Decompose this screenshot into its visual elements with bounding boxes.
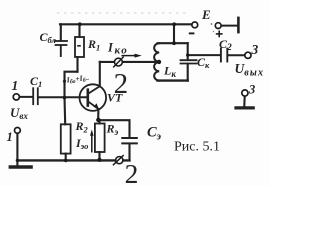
- arrow Ib current down: [63, 75, 67, 87]
- transistor VT emitter arrowhead: [94, 103, 99, 109]
- node collector coil tap: [157, 60, 161, 64]
- transistor VT emitter stroke with arrow: [88, 102, 98, 109]
- svg-text:Ск: Ск: [197, 55, 210, 70]
- capacitor C2 plates: [221, 49, 227, 62]
- node emitter junction: [96, 118, 100, 122]
- svg-text:E: E: [201, 7, 211, 22]
- resistor Re leads: [98, 120, 100, 160]
- wire emitter lead down: [97, 109, 99, 120]
- node R2 rail junction: [64, 159, 68, 163]
- wire jog R1 to base branch: [65, 72, 78, 98]
- svg-text:Uвх: Uвх: [10, 105, 28, 121]
- svg-text:Iбо+Iб~: Iбо+Iб~: [65, 73, 90, 86]
- svg-text:1: 1: [12, 78, 19, 93]
- svg-text:3: 3: [251, 42, 259, 57]
- wire left rail corner down to Cbl: [60, 24, 62, 40]
- faint printed rule artifact: [57, 12, 186, 14]
- node riser top rail junction: [172, 22, 176, 26]
- capacitor Cbl plates: [55, 41, 68, 45]
- wire lower terminal 3 to ground: [243, 96, 245, 106]
- node Re rail junction: [97, 158, 101, 162]
- capacitor Ck plates: [181, 60, 197, 63]
- arrow Ieo current up: [90, 130, 94, 153]
- svg-text:С2: С2: [219, 37, 232, 53]
- resistor R1 leads: [78, 24, 80, 71]
- capacitor Ce plates: [122, 138, 137, 143]
- wire bottom ground rail: [17, 159, 129, 161]
- svg-text:R1: R1: [87, 37, 100, 53]
- transistor VT circle: [80, 84, 107, 111]
- terminal E plus circle: [215, 23, 221, 29]
- svg-text:3: 3: [248, 83, 255, 97]
- label plus at E: [216, 31, 223, 38]
- wire tank bottom: [158, 79, 188, 81]
- transistor VT base bar: [87, 90, 90, 106]
- wire base branch down to R2: [63, 98, 66, 125]
- svg-text:Сбл: Сбл: [40, 30, 57, 45]
- svg-text:Rэ: Rэ: [106, 122, 119, 138]
- capacitor C1 plates: [33, 88, 38, 104]
- arrow Iko current: [122, 54, 142, 58]
- terminal 1 lower circle: [15, 127, 21, 133]
- node riser tank top junction: [172, 41, 176, 45]
- transistor VT collector stroke: [88, 86, 100, 93]
- label minus at E: [189, 32, 195, 34]
- wire top supply rail: [60, 23, 192, 25]
- svg-text:VT: VT: [107, 91, 123, 105]
- terminal 3 upper circle: [245, 52, 251, 58]
- inductor Lk coil: [154, 43, 159, 80]
- node rail left junction: [16, 159, 19, 162]
- wire collector horizontal to coil tap: [100, 61, 159, 63]
- ground symbol bottom-left: [16, 160, 18, 165]
- terminal 1 upper circle: [13, 94, 19, 100]
- svg-text:Iэо: Iэо: [75, 136, 88, 151]
- svg-text:Lк: Lк: [163, 64, 176, 80]
- svg-text:Uвых: Uвых: [235, 61, 265, 78]
- terminal 3 lower circle: [242, 90, 248, 96]
- svg-text:Сэ: Сэ: [147, 125, 162, 143]
- resistor Re body: [95, 124, 105, 153]
- resistor R2 bottom lead: [65, 154, 67, 161]
- wire input line: [19, 96, 87, 98]
- wire collector lead up: [99, 62, 101, 86]
- speck near E: [211, 23, 213, 25]
- speck near plus: [213, 31, 215, 33]
- wire E plus terminal to chassis: [221, 25, 237, 27]
- wire output tap to C2: [188, 54, 220, 56]
- break point 2 collector circle: [113, 57, 124, 68]
- resistor R1 body: [75, 37, 84, 57]
- svg-text:R2: R2: [75, 119, 89, 135]
- svg-text:С1: С1: [30, 74, 42, 89]
- wire riser from top rail to tank: [173, 24, 175, 43]
- wire emitter node to Ce corner: [98, 120, 129, 137]
- break point 2 emitter circle: [113, 155, 124, 165]
- wire Ce bottom lead: [128, 144, 130, 161]
- wire lower input terminal to ground rail: [16, 133, 18, 160]
- resistor R1 inner mark: [78, 45, 80, 47]
- svg-text:Рис. 5.1: Рис. 5.1: [174, 140, 220, 155]
- svg-text:2: 2: [125, 158, 139, 186]
- node base junction: [63, 96, 67, 100]
- wire Cbl bottom lead: [60, 45, 62, 56]
- svg-text:Iко: Iко: [107, 41, 128, 57]
- wire tank top: [158, 42, 188, 44]
- node output tap junction: [186, 53, 189, 56]
- wire C2 to output terminal 3: [228, 54, 245, 56]
- wire tank right side: [187, 43, 189, 80]
- terminal E minus circle: [192, 22, 198, 28]
- resistor R2 body: [61, 124, 71, 153]
- node R1 top rail junction: [78, 22, 82, 26]
- ground symbol E plus side: [237, 18, 240, 32]
- ground symbol output: [236, 106, 253, 109]
- svg-text:1: 1: [7, 130, 13, 144]
